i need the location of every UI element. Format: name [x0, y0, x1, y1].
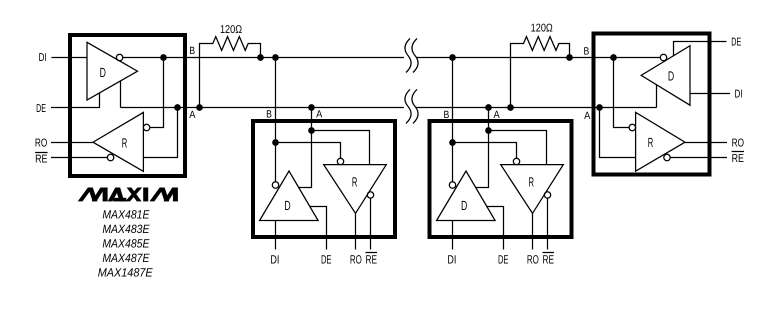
svg-text:B: B	[266, 109, 272, 121]
svg-text:DI: DI	[270, 252, 279, 266]
wire DI U3	[452, 221, 454, 250]
svg-text:RO: RO	[732, 138, 744, 150]
driver D U3	[437, 171, 496, 221]
svg-text:DE: DE	[498, 252, 509, 266]
transceiver U3 box (middle right)	[430, 121, 572, 237]
svg-text:R: R	[122, 136, 128, 151]
receiver R U2 input bubble	[337, 158, 343, 164]
wire B to receiver U4	[614, 58, 630, 128]
junction A internal U3	[486, 128, 491, 133]
transceiver U2 box (middle left)	[253, 121, 395, 237]
wire DE U2	[310, 207, 327, 250]
receiver R U1	[93, 112, 143, 171]
svg-text:D: D	[668, 68, 674, 83]
svg-text:MAX485E: MAX485E	[102, 237, 150, 251]
receiver R U3 input bubble	[513, 158, 519, 164]
junction A internal U4	[597, 105, 602, 110]
wire RO U1	[51, 142, 93, 144]
receiver R U4 enable bubble	[664, 154, 670, 160]
wire A to receiver U1	[143, 108, 177, 158]
wire RE U2	[370, 198, 372, 249]
wire DI U1	[51, 57, 87, 59]
driver D U1 output bubble (B)	[116, 54, 122, 60]
wire B to receiver U3	[453, 143, 517, 159]
junction A line U3	[486, 105, 491, 110]
wire driver U1 output A	[120, 81, 122, 108]
wire RO U3	[532, 213, 534, 250]
junction B internal U4	[611, 55, 616, 60]
driver D U4 output bubble (B)	[660, 54, 666, 60]
wire B to receiver U1	[150, 58, 164, 128]
wire DI U4	[690, 93, 730, 95]
svg-text:DE: DE	[321, 252, 332, 266]
svg-text:RE: RE	[366, 252, 378, 266]
resistor R1 120ohm termination	[200, 37, 261, 108]
svg-text:A: A	[584, 110, 590, 122]
svg-text:R: R	[648, 135, 654, 150]
receiver R U4	[636, 112, 685, 171]
receiver R U1 enable bubble	[107, 154, 113, 160]
wire DI U2	[275, 221, 277, 250]
junction B internal U1	[161, 55, 166, 60]
junction R2-A	[508, 105, 513, 110]
svg-text:DI: DI	[447, 252, 456, 266]
wire RE U1	[51, 157, 107, 159]
wire DE U1	[51, 93, 100, 108]
svg-text:B: B	[444, 109, 450, 121]
receiver R U3 enable bubble	[544, 192, 550, 198]
resistor R2 120ohm termination	[511, 37, 570, 108]
wire A to receiver U4	[600, 108, 636, 158]
junction A internal U2	[309, 128, 314, 133]
receiver R U2 enable bubble	[367, 192, 373, 198]
line break symbol on B	[405, 39, 418, 73]
svg-text:B: B	[189, 45, 195, 57]
svg-text:120Ω: 120Ω	[531, 23, 553, 35]
receiver R U4 input bubble	[629, 124, 635, 130]
driver D U2 output bubble	[272, 182, 278, 188]
svg-text:D: D	[100, 65, 106, 80]
wire RE U3	[547, 198, 549, 249]
svg-text:MAX481E: MAX481E	[102, 207, 150, 221]
receiver R U3	[501, 165, 564, 214]
wire B to receiver U2	[276, 143, 341, 159]
line break symbol on A	[405, 89, 418, 123]
wire bus line B	[123, 57, 661, 59]
svg-text:RO: RO	[350, 252, 362, 266]
svg-text:MAX483E: MAX483E	[102, 222, 150, 236]
wire DE U3	[487, 207, 504, 250]
svg-text:120Ω: 120Ω	[220, 24, 242, 36]
svg-text:RO: RO	[527, 252, 539, 266]
wire driver U4 output A	[656, 85, 658, 108]
junction B internal U2	[273, 140, 278, 145]
svg-text:DE: DE	[731, 37, 741, 49]
svg-text:R: R	[529, 174, 535, 189]
transceiver U4 box (right)	[594, 34, 710, 175]
wire A to receiver U3	[489, 131, 547, 165]
svg-text:RO: RO	[35, 138, 47, 150]
driver D U2	[260, 171, 319, 221]
wire RO U4	[685, 142, 727, 144]
svg-text:D: D	[461, 198, 467, 213]
driver D U4	[641, 46, 690, 105]
svg-text:DE: DE	[36, 103, 46, 115]
svg-text:DI: DI	[735, 89, 743, 101]
wire bus line A	[121, 107, 657, 109]
wire B drop to U2	[275, 58, 277, 182]
svg-text:A: A	[316, 109, 322, 121]
svg-text:DI: DI	[39, 52, 47, 64]
svg-text:MAX1487E: MAX1487E	[98, 266, 154, 280]
transceiver U1 box (left MAX481E)	[70, 35, 185, 176]
svg-text:MAX487E: MAX487E	[102, 251, 150, 265]
receiver R U1 input bubble (from B)	[143, 124, 149, 130]
junction A internal U1	[175, 105, 180, 110]
wire A drop to U2	[298, 108, 311, 188]
MAXIM logo	[78, 188, 178, 202]
junction B line U3	[450, 55, 455, 60]
svg-text:B: B	[584, 45, 590, 57]
junction A line U2	[309, 105, 314, 110]
junction R1-B	[258, 55, 263, 60]
wire RE U4	[670, 157, 727, 159]
svg-text:D: D	[284, 198, 290, 213]
wire A to receiver U2	[312, 131, 370, 165]
junction R2-B	[567, 55, 572, 60]
receiver R U2	[324, 165, 387, 214]
wire RO U2	[355, 213, 357, 250]
driver D U3 output bubble	[449, 182, 455, 188]
wire A drop to U3	[475, 108, 488, 188]
driver D U1	[87, 42, 138, 100]
svg-text:RE: RE	[543, 252, 555, 266]
svg-text:R: R	[352, 174, 358, 189]
wire DE U4	[674, 42, 727, 56]
junction R1-A	[197, 105, 202, 110]
svg-text:A: A	[494, 109, 500, 121]
wire B drop to U3	[452, 58, 454, 182]
svg-text:RE: RE	[732, 153, 745, 165]
svg-text:RE: RE	[35, 153, 48, 165]
part list	[98, 207, 154, 279]
junction B line U2	[273, 55, 278, 60]
junction B internal U3	[450, 140, 455, 145]
svg-text:A: A	[189, 109, 195, 121]
